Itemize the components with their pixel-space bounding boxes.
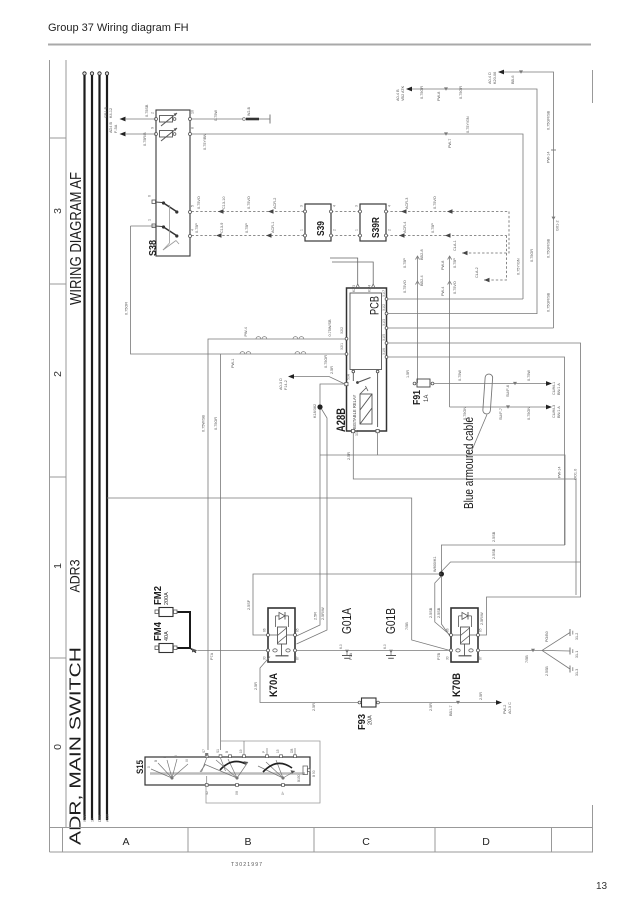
wire PCB X1/6 loop to node	[388, 357, 565, 574]
svg-text:0.75GR: 0.75GR	[459, 86, 463, 99]
wire node to K70B coil branch1	[429, 576, 450, 635]
wire F91 to CU/M-1	[434, 370, 561, 397]
svg-text:WIRING DIAGRAM AF: WIRING DIAGRAM AF	[68, 172, 85, 305]
svg-text:2.5R/W: 2.5R/W	[321, 607, 325, 620]
column letter A	[122, 836, 129, 848]
svg-text:15: 15	[91, 818, 95, 822]
switch S39	[300, 204, 337, 241]
svg-text:PW-14: PW-14	[547, 151, 551, 163]
wire A28B X1/4 stub	[377, 433, 379, 455]
svg-text:T3021997: T3021997	[231, 862, 263, 868]
svg-text:X1/5: X1/5	[382, 334, 386, 341]
svg-text:PW-8: PW-8	[441, 261, 445, 270]
wire to CU/M-3	[450, 405, 561, 420]
svg-text:C13-9: C13-9	[220, 223, 224, 233]
svg-text:B 50: B 50	[312, 770, 316, 777]
S15 rotary group 1	[151, 759, 188, 779]
svg-text:VB2 ATK: VB2 ATK	[401, 85, 405, 101]
svg-text:S39: S39	[316, 221, 327, 236]
svg-text:2.5SB: 2.5SB	[429, 607, 433, 618]
S15 rotary group 2	[200, 759, 248, 779]
S15 rotary group 3	[258, 760, 295, 779]
svg-text:W30: W30	[83, 815, 87, 822]
svg-text:5: 5	[191, 205, 195, 207]
svg-text:6.0: 6.0	[383, 644, 387, 649]
svg-text:2.5R: 2.5R	[479, 692, 483, 700]
terminal fan 31 posts	[542, 629, 579, 676]
svg-text:200A: 200A	[164, 592, 170, 605]
svg-text:BN/1 A: BN/1 A	[557, 383, 561, 395]
wire A28B 30A to K70B coil right	[347, 433, 576, 595]
svg-text:F93: F93	[357, 714, 368, 730]
svg-text:S1: S1	[216, 749, 220, 753]
wire S38 pin10 with terminator	[192, 106, 271, 123]
svg-text:0.75Y/BN: 0.75Y/BN	[203, 133, 207, 150]
svg-text:S38: S38	[147, 240, 159, 256]
svg-text:40A: 40A	[164, 631, 170, 641]
svg-text:F-5A: F-5A	[114, 124, 118, 133]
svg-text:W800/K1: W800/K1	[433, 556, 437, 572]
plot number T3021997	[231, 862, 263, 868]
svg-text:G01B: G01B	[384, 608, 398, 634]
svg-text:0.75GR: 0.75GR	[420, 86, 424, 99]
svg-text:0.75VO: 0.75VO	[433, 196, 437, 209]
svg-text:0.75P: 0.75P	[245, 223, 249, 233]
zone label 2	[52, 371, 64, 377]
svg-text:87: 87	[479, 656, 483, 660]
svg-text:86: 86	[446, 628, 450, 632]
svg-text:0.75Y/GN: 0.75Y/GN	[517, 258, 521, 275]
svg-text:2.5R: 2.5R	[254, 682, 258, 690]
bus bar 1	[83, 72, 86, 820]
svg-text:ADR3: ADR3	[67, 559, 83, 592]
wire PCB X1/2 up right	[388, 313, 537, 315]
svg-text:X1/6: X1/6	[382, 348, 386, 355]
wire S38 pin8 to right column	[192, 116, 524, 299]
zone label 0	[52, 744, 64, 750]
svg-text:3: 3	[52, 208, 64, 214]
S38 pin numbers	[148, 110, 195, 231]
svg-text:P7B: P7B	[437, 652, 441, 660]
svg-text:K18/382: K18/382	[313, 404, 317, 418]
svg-text:C13-10: C13-10	[222, 197, 226, 209]
svg-text:P7A: P7A	[210, 652, 214, 660]
svg-text:0.75SB: 0.75SB	[145, 104, 149, 117]
bus bar 2	[90, 72, 93, 820]
svg-text:7/5B: 7/5B	[405, 622, 409, 630]
off-page arrow A0-4 B VB2 ATK	[396, 85, 537, 314]
zone tick marks	[50, 138, 67, 658]
svg-text:OO1.0: OO1.0	[574, 469, 578, 480]
svg-text:30: 30	[446, 656, 450, 660]
svg-text:SU/F-6: SU/F-6	[506, 385, 510, 397]
svg-text:DB: DB	[290, 749, 294, 753]
svg-text:4: 4	[388, 205, 392, 207]
wire bus to K70B contact	[107, 498, 450, 650]
wire F93 to PW-2	[380, 692, 513, 716]
S38 switch contact upper	[152, 200, 178, 214]
relay K70A	[263, 608, 300, 697]
svg-text:A110: A110	[106, 814, 110, 822]
svg-text:CLA-1: CLA-1	[453, 240, 457, 251]
svg-text:PW-8: PW-8	[437, 92, 441, 101]
off-page arrow AD4 B F-5A	[109, 117, 156, 133]
svg-text:0.75W/SB: 0.75W/SB	[328, 319, 332, 337]
title rule	[48, 44, 591, 46]
svg-text:BB-6: BB-6	[511, 76, 515, 84]
svg-text:CLA-2: CLA-2	[475, 267, 479, 278]
bistable relay unit A28B box	[336, 288, 387, 432]
svg-text:BB2-4: BB2-4	[420, 275, 424, 286]
svg-text:CU/M-1: CU/M-1	[552, 382, 556, 395]
svg-text:X1/2: X1/2	[382, 304, 386, 311]
svg-text:0.75P: 0.75P	[195, 223, 199, 233]
wire node to K70A coil	[247, 574, 441, 635]
svg-text:K4-12: K4-12	[109, 108, 113, 118]
svg-text:III: III	[185, 759, 189, 762]
svg-text:K2/4: K2/4	[368, 285, 372, 292]
svg-text:SU/F-7: SU/F-7	[499, 408, 503, 420]
svg-text:K70B: K70B	[451, 673, 463, 697]
svg-text:S39R: S39R	[371, 216, 382, 238]
S15 bottom pins	[205, 784, 284, 787]
svg-text:2.5SB: 2.5SB	[545, 666, 549, 676]
A28B top connector pins K2/3 K2/4	[330, 258, 375, 288]
off-page arrow A0-4 D K20-06	[488, 70, 560, 328]
svg-text:D: D	[482, 836, 490, 848]
svg-text:19: 19	[239, 749, 243, 753]
svg-text:50A: 50A	[347, 373, 351, 380]
svg-text:ADR, MAIN SWITCH: ADR, MAIN SWITCH	[68, 647, 85, 845]
svg-text:K20-06: K20-06	[493, 72, 497, 84]
svg-text:X8: X8	[235, 791, 239, 795]
S15 pin labels	[147, 749, 316, 795]
svg-text:0.75OR: 0.75OR	[125, 302, 129, 315]
svg-text:8: 8	[191, 127, 195, 129]
svg-text:9: 9	[151, 127, 155, 129]
svg-text:2.5SB: 2.5SB	[492, 531, 496, 542]
title	[48, 22, 189, 34]
svg-text:BB1-7: BB1-7	[449, 705, 453, 716]
bus bar 4	[105, 72, 108, 820]
svg-text:2.5SB: 2.5SB	[437, 607, 441, 618]
wire K70A 87a to F93	[254, 657, 360, 712]
junction node K18/382	[313, 384, 345, 418]
svg-text:ACR-1: ACR-1	[271, 222, 275, 233]
S15 top pins	[205, 755, 310, 772]
A28B internal bistable relay coil	[345, 370, 379, 433]
svg-text:0.75W/SB: 0.75W/SB	[202, 414, 206, 432]
svg-text:0.75GR/SB: 0.75GR/SB	[547, 110, 551, 130]
svg-text:87: 87	[296, 656, 300, 660]
svg-text:X1/7: X1/7	[382, 290, 386, 297]
svg-text:AD4 B: AD4 B	[109, 122, 113, 133]
svg-text:1: 1	[52, 563, 64, 569]
svg-text:15: 15	[276, 749, 280, 753]
wire PCB X1/3 up right	[388, 327, 554, 329]
svg-text:B150: B150	[297, 774, 301, 782]
wire node K18/382 down to K70A	[297, 410, 321, 637]
ground G01A	[339, 607, 354, 658]
svg-text:7/5B: 7/5B	[525, 655, 529, 663]
S38 pin circles	[155, 118, 192, 238]
svg-text:W2-B: W2-B	[247, 106, 251, 116]
svg-text:2.5SF: 2.5SF	[247, 599, 251, 610]
zone label 1	[52, 563, 64, 569]
svg-text:31-2: 31-2	[575, 633, 579, 640]
svg-text:P7A: P7A	[349, 652, 353, 660]
svg-text:DH0: DH0	[98, 815, 102, 822]
svg-text:G01A: G01A	[340, 607, 354, 634]
svg-text:2: 2	[333, 229, 337, 231]
svg-text:Blue armoured cable: Blue armoured cable	[462, 417, 476, 509]
svg-text:BISTABLE RELAY: BISTABLE RELAY	[352, 395, 357, 429]
svg-text:30: 30	[263, 656, 267, 660]
wire node to K70B coil branch2	[437, 577, 450, 636]
svg-text:FM4: FM4	[153, 622, 164, 641]
svg-text:C: C	[362, 836, 370, 848]
svg-text:1.5R: 1.5R	[406, 370, 410, 378]
S38 switch contact lower	[152, 224, 178, 238]
A28B internal PCB	[350, 293, 382, 370]
svg-text:A0-3 D: A0-3 D	[279, 378, 283, 390]
wire PCB X2/2 row	[202, 319, 346, 750]
svg-text:A28B: A28B	[336, 408, 348, 432]
wire node K18/382 diag branch down	[297, 409, 328, 644]
svg-text:30A: 30A	[355, 429, 359, 436]
svg-text:FM2: FM2	[153, 586, 164, 605]
svg-text:CU/M-3: CU/M-3	[552, 405, 556, 418]
svg-text:2.5R: 2.5R	[312, 703, 316, 711]
svg-text:85: 85	[479, 628, 483, 632]
svg-text:0.75W: 0.75W	[527, 370, 531, 381]
heading ADR3	[67, 559, 83, 592]
svg-text:2.5R: 2.5R	[314, 612, 318, 620]
svg-text:0.75GR/SB: 0.75GR/SB	[547, 238, 551, 258]
column letter C	[362, 836, 370, 848]
svg-text:0: 0	[147, 766, 151, 768]
main wire row 651	[192, 648, 542, 663]
svg-text:3: 3	[355, 205, 359, 207]
switch S39R	[355, 204, 392, 241]
svg-text:13: 13	[596, 881, 608, 892]
svg-text:B: B	[244, 836, 251, 848]
svg-text:6.0: 6.0	[339, 644, 343, 649]
junction node W800/K1	[433, 556, 444, 576]
svg-text:I: I	[163, 757, 167, 758]
blue armoured cable symbol	[462, 374, 493, 509]
svg-text:0.75VO: 0.75VO	[247, 196, 251, 209]
svg-text:2.5R: 2.5R	[347, 452, 351, 460]
svg-text:0.75W: 0.75W	[458, 370, 462, 381]
svg-text:F91: F91	[411, 390, 423, 405]
svg-text:GB1 B: GB1 B	[104, 106, 108, 118]
svg-text:K2/3: K2/3	[352, 285, 356, 292]
column letter D	[482, 836, 490, 848]
S15 pin stub wires	[202, 741, 296, 784]
svg-text:ACR-4: ACR-4	[403, 222, 407, 233]
svg-text:6: 6	[148, 195, 152, 197]
svg-text:0+: 0+	[281, 791, 285, 795]
svg-text:2.5R: 2.5R	[330, 366, 334, 374]
svg-text:0.75GR/SB: 0.75GR/SB	[547, 292, 551, 312]
svg-text:PW-2: PW-2	[503, 705, 507, 714]
svg-text:0.75P: 0.75P	[431, 223, 435, 233]
svg-text:S15: S15	[135, 759, 146, 774]
svg-text:0.75W: 0.75W	[214, 110, 218, 121]
S38 mechanical link	[163, 205, 179, 250]
svg-text:PW-1: PW-1	[231, 359, 235, 368]
svg-text:1: 1	[300, 229, 304, 231]
svg-text:F14-2: F14-2	[284, 380, 288, 390]
S38 heater resistor R-top	[160, 113, 178, 126]
svg-text:3: 3	[300, 205, 304, 207]
svg-text:2.5SB: 2.5SB	[492, 548, 496, 559]
svg-text:PW-7: PW-7	[448, 139, 452, 148]
column letter B	[244, 836, 251, 848]
frame left outer border	[49, 60, 51, 852]
svg-text:0.75GR: 0.75GR	[530, 249, 534, 262]
svg-text:86: 86	[263, 628, 267, 632]
svg-text:2: 2	[52, 371, 64, 377]
svg-text:2: 2	[388, 229, 392, 231]
wire PCB X1/5 loop to node	[388, 343, 581, 635]
frame right border segments	[592, 70, 594, 852]
svg-text:31-3: 31-3	[575, 669, 579, 676]
heading ADR, MAIN SWITCH	[68, 647, 85, 845]
svg-text:PW-4: PW-4	[244, 327, 248, 336]
svg-text:31-1: 31-1	[575, 651, 579, 658]
svg-text:ACR-2: ACR-2	[273, 198, 277, 209]
svg-text:4: 4	[333, 205, 337, 207]
svg-text:2: 2	[151, 112, 155, 114]
svg-text:0.75VO: 0.75VO	[197, 196, 201, 209]
zone label 3	[52, 208, 64, 214]
connector arrows above A28B column2	[441, 256, 457, 407]
svg-text:G01-2: G01-2	[556, 220, 560, 231]
svg-text:2.5R/W: 2.5R/W	[480, 612, 484, 625]
svg-text:0.75VO: 0.75VO	[403, 280, 407, 293]
wire PCB X2/1 row	[125, 226, 346, 750]
wire PCB X1/7 up right	[388, 298, 523, 300]
svg-text:4: 4	[191, 229, 195, 231]
svg-text:X2/2: X2/2	[340, 327, 344, 334]
svg-text:P: P	[262, 751, 266, 753]
svg-text:II: II	[174, 755, 178, 757]
bus bar 3	[98, 72, 101, 820]
svg-text:0.75Y/GN: 0.75Y/GN	[466, 116, 470, 133]
svg-text:2.5R: 2.5R	[429, 703, 433, 711]
heading WIRING DIAGRAM AF	[68, 172, 85, 305]
dashed wire row S38 pin4	[192, 222, 507, 283]
svg-text:0.75P: 0.75P	[453, 258, 457, 268]
svg-text:PCB: PCB	[370, 296, 382, 315]
svg-text:X1/3: X1/3	[382, 319, 386, 326]
fuse F93	[357, 698, 379, 730]
ground G01B	[383, 608, 398, 658]
fuse FM2	[153, 586, 177, 617]
svg-text:S7: S7	[202, 749, 206, 753]
relay K70B	[446, 608, 483, 697]
off-page arrow A0-3 D F14-2	[279, 366, 345, 390]
svg-text:0: 0	[52, 744, 64, 750]
off-page arrow GB1 B K4-12	[104, 106, 156, 136]
svg-text:BN/1 A: BN/1 A	[557, 406, 561, 418]
svg-text:PW-4: PW-4	[441, 287, 445, 296]
svg-text:1: 1	[148, 219, 152, 221]
svg-text:85: 85	[296, 628, 300, 632]
A28B pin name labels	[340, 285, 386, 436]
svg-text:A0-4 D: A0-4 D	[488, 72, 492, 84]
svg-text:0.75OR: 0.75OR	[214, 417, 218, 430]
connector arrows above A28B column1	[403, 249, 424, 383]
svg-text:20A: 20A	[368, 715, 374, 725]
svg-text:0.75P: 0.75P	[403, 258, 407, 268]
svg-text:B: B	[225, 751, 229, 753]
svg-text:A0-3 C: A0-3 C	[508, 702, 512, 714]
page number 13	[596, 881, 608, 892]
svg-text:A: A	[122, 836, 129, 848]
svg-text:0.75R/B: 0.75R/B	[143, 132, 147, 146]
fuse FM4	[153, 622, 177, 653]
wire node loop via 565	[320, 455, 565, 545]
S15 enclosure outline	[206, 741, 320, 803]
svg-text:X2/1: X2/1	[340, 343, 344, 350]
svg-text:K70A: K70A	[268, 673, 280, 697]
svg-text:BB2-8: BB2-8	[420, 249, 424, 260]
svg-text:PO/B0: PO/B0	[545, 631, 549, 642]
bus bar bottom labels	[83, 814, 110, 822]
A28B right edge pins	[345, 298, 388, 359]
svg-text:A0-4 B: A0-4 B	[396, 89, 400, 101]
dashed wire row S38 pin5	[192, 196, 510, 255]
main switch S15 box	[135, 757, 310, 785]
svg-text:0.75VO: 0.75VO	[453, 281, 457, 294]
svg-text:1: 1	[355, 229, 359, 231]
svg-text:PW-14: PW-14	[558, 466, 562, 478]
bottom letter row lines	[50, 828, 594, 853]
svg-text:B: B	[154, 760, 158, 762]
svg-text:0.75GN: 0.75GN	[527, 407, 531, 420]
svg-text:1A: 1A	[424, 395, 430, 402]
frame zone column inner line	[65, 60, 67, 828]
bottom row cell separators	[63, 828, 552, 853]
svg-text:Group 37 Wiring diagram FH: Group 37 Wiring diagram FH	[48, 22, 189, 34]
fuse F91	[406, 370, 434, 405]
main switch S38 box	[147, 110, 190, 256]
thick feed wire FM2/FM4	[178, 612, 197, 653]
svg-text:ACR-3: ACR-3	[405, 198, 409, 209]
S38 left pin wire labels	[143, 104, 149, 146]
svg-text:10: 10	[191, 110, 195, 114]
S38 heater resistor R-bottom	[160, 128, 178, 141]
svg-text:0.75OR: 0.75OR	[324, 355, 328, 368]
